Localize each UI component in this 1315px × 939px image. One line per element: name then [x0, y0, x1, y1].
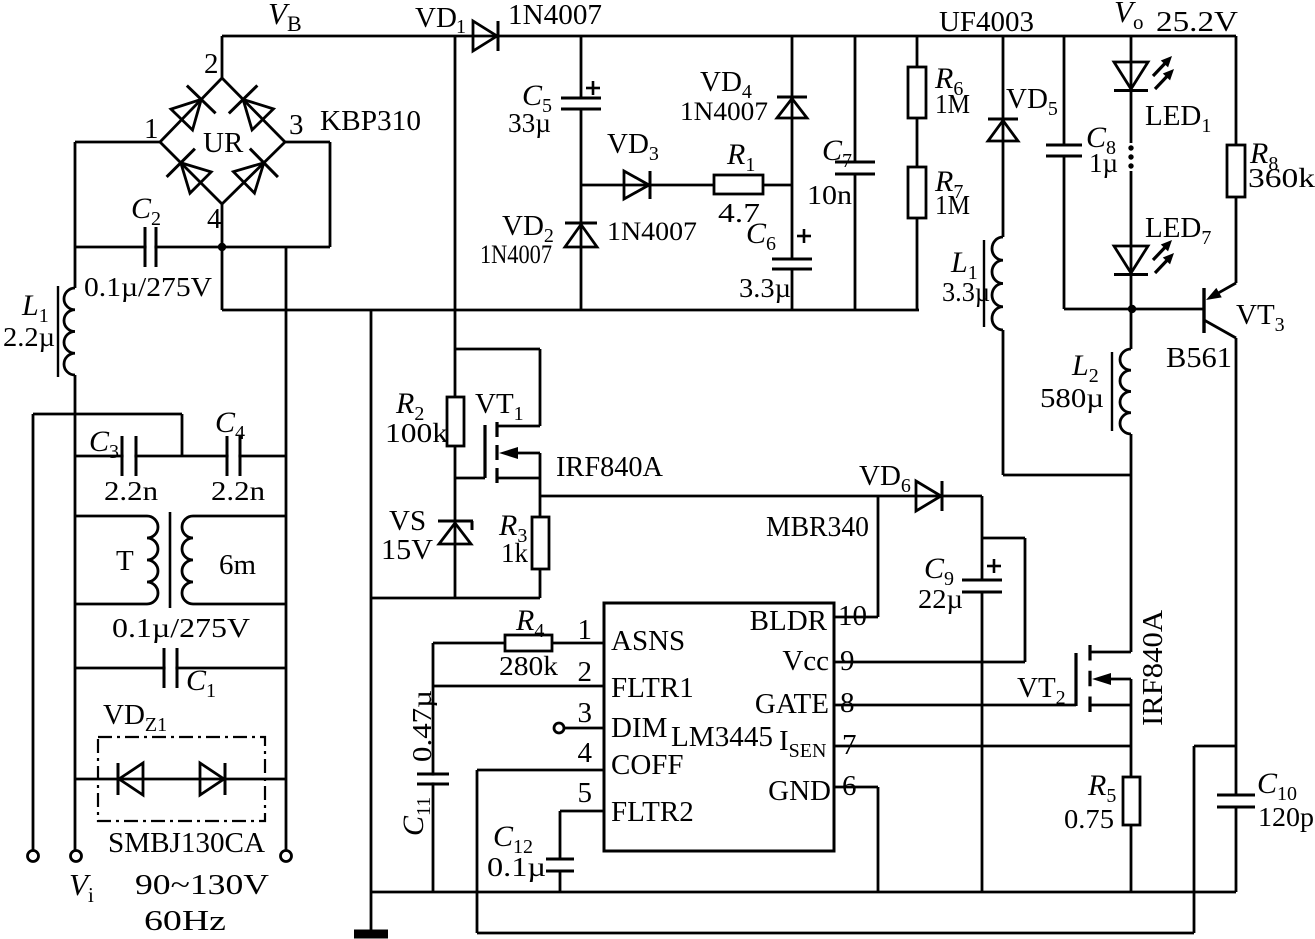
svg-text:3: 3	[578, 697, 593, 729]
svg-text:1µ: 1µ	[1089, 148, 1118, 178]
svg-text:4: 4	[207, 203, 222, 235]
svg-text:4.7: 4.7	[718, 198, 760, 228]
svg-text:9: 9	[840, 645, 855, 677]
svg-text:VD: VD	[415, 2, 457, 34]
svg-text:5: 5	[578, 777, 593, 809]
svg-text:B561: B561	[1166, 342, 1232, 374]
svg-text:60Hz: 60Hz	[144, 905, 226, 937]
svg-text:1N4007: 1N4007	[508, 0, 602, 31]
svg-text:4: 4	[578, 737, 593, 769]
svg-text:COFF: COFF	[611, 749, 684, 781]
svg-text:1N4007: 1N4007	[480, 240, 552, 269]
svg-text:VS: VS	[389, 505, 426, 537]
svg-text:6m: 6m	[219, 549, 256, 581]
svg-text:UF4003: UF4003	[939, 6, 1034, 38]
svg-text:90~130V: 90~130V	[135, 869, 269, 901]
svg-text:SMBJ130CA: SMBJ130CA	[108, 827, 265, 859]
svg-text:BLDR: BLDR	[750, 605, 828, 637]
svg-text:100k: 100k	[385, 418, 449, 448]
svg-text:2.2µ: 2.2µ	[3, 322, 55, 352]
svg-text:LM3445: LM3445	[671, 721, 773, 753]
svg-text:2: 2	[578, 656, 593, 688]
svg-text:ASNS: ASNS	[611, 625, 685, 657]
svg-text:KBP310: KBP310	[320, 105, 421, 137]
svg-text:MBR340: MBR340	[766, 511, 869, 543]
svg-text:1: 1	[456, 16, 466, 38]
svg-text:33µ: 33µ	[508, 108, 551, 138]
svg-text:FLTR1: FLTR1	[611, 672, 694, 704]
svg-text:25.2V: 25.2V	[1156, 6, 1238, 38]
svg-text:Vcc: Vcc	[782, 645, 829, 677]
svg-text:0.47µ: 0.47µ	[407, 690, 437, 762]
svg-text:15V: 15V	[381, 534, 433, 566]
svg-text:1k: 1k	[501, 538, 529, 568]
svg-text:120p: 120p	[1258, 802, 1314, 832]
svg-text:GATE: GATE	[755, 688, 829, 720]
svg-text:1: 1	[578, 614, 593, 646]
svg-text:IRF840A: IRF840A	[1137, 610, 1169, 726]
svg-text:1N4007: 1N4007	[680, 97, 768, 126]
svg-text:6: 6	[842, 770, 857, 802]
svg-text:1N4007: 1N4007	[607, 217, 697, 246]
svg-text:GND: GND	[768, 775, 831, 807]
svg-text:DIM: DIM	[611, 712, 667, 744]
svg-text:1: 1	[144, 113, 159, 145]
svg-text:1M: 1M	[935, 190, 970, 220]
svg-text:280k: 280k	[499, 651, 559, 681]
svg-text:8: 8	[840, 687, 855, 719]
svg-text:3.3µ: 3.3µ	[739, 273, 791, 303]
svg-text:0.75: 0.75	[1064, 804, 1114, 834]
svg-text:580µ: 580µ	[1040, 383, 1104, 413]
svg-text:360k: 360k	[1248, 163, 1315, 193]
svg-text:T: T	[116, 545, 134, 577]
svg-text:2.2n: 2.2n	[211, 476, 266, 506]
svg-text:3: 3	[289, 109, 304, 141]
svg-text:0.1µ: 0.1µ	[487, 852, 546, 882]
svg-text:UR: UR	[203, 127, 244, 159]
svg-text:2.2n: 2.2n	[104, 476, 159, 506]
svg-text:10: 10	[838, 600, 867, 632]
svg-text:3.3µ: 3.3µ	[942, 277, 990, 307]
svg-text:7: 7	[842, 729, 857, 761]
svg-text:0.1µ/275V: 0.1µ/275V	[84, 272, 213, 302]
svg-text:FLTR2: FLTR2	[611, 796, 694, 828]
svg-text:10n: 10n	[807, 180, 853, 210]
svg-text:2: 2	[204, 48, 219, 80]
svg-text:22µ: 22µ	[918, 584, 963, 614]
svg-text:0.1µ/275V: 0.1µ/275V	[112, 613, 251, 643]
svg-text:1M: 1M	[935, 89, 970, 119]
svg-text:IRF840A: IRF840A	[556, 452, 664, 483]
